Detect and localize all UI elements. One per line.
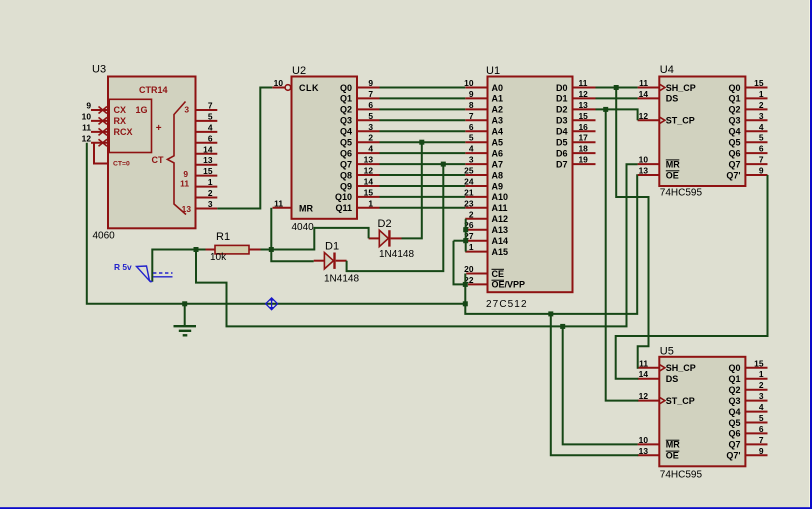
U5 left pin stubs: [638, 368, 660, 456]
wire MR rail down to U5 MR: [563, 326, 638, 444]
svg-text:9: 9: [759, 446, 764, 456]
svg-text:15: 15: [579, 111, 589, 121]
wire R1 node down to D1 anode: [271, 250, 313, 262]
svg-text:12: 12: [579, 89, 589, 99]
svg-text:6: 6: [759, 144, 764, 154]
svg-text:4: 4: [759, 122, 764, 132]
svg-text:Q0: Q0: [728, 363, 740, 373]
svg-text:D0: D0: [556, 83, 568, 93]
U3 CT output bracket: [167, 102, 186, 215]
svg-text:Q7': Q7': [726, 451, 740, 461]
U3 pin12 to CT=0 feedback loop: [94, 143, 108, 164]
svg-text:OE/VPP: OE/VPP: [492, 280, 526, 290]
svg-text:13: 13: [639, 446, 649, 456]
svg-text:3: 3: [184, 105, 189, 115]
svg-text:74HC595: 74HC595: [660, 187, 703, 198]
svg-text:3: 3: [208, 199, 213, 209]
svg-text:RCX: RCX: [114, 127, 133, 137]
svg-text:15: 15: [754, 358, 764, 368]
svg-text:7: 7: [208, 101, 213, 111]
svg-text:1: 1: [368, 198, 373, 208]
svg-text:19: 19: [579, 155, 589, 165]
svg-text:2: 2: [368, 133, 373, 143]
U4 output pin stubs: [745, 88, 767, 176]
svg-text:A14: A14: [492, 236, 509, 246]
svg-text:2: 2: [759, 380, 764, 390]
svg-text:Q6: Q6: [728, 429, 740, 439]
junction D0 clock branch: [614, 85, 619, 90]
svg-text:13: 13: [579, 100, 589, 110]
svg-text:4: 4: [368, 144, 373, 154]
U2 MR pin stub: [273, 207, 292, 209]
svg-text:D7: D7: [556, 159, 568, 169]
svg-text:9: 9: [86, 101, 91, 111]
svg-text:Q4: Q4: [728, 407, 740, 417]
U4 left pin stubs: [638, 88, 660, 176]
svg-text:7: 7: [759, 155, 764, 165]
origin move marker on ground rail: [266, 297, 278, 310]
svg-text:+: +: [156, 123, 162, 134]
U4 output pin numbers: [754, 78, 764, 176]
wire CE OE A12-A15 ground chain: [454, 175, 638, 314]
wire Q5 to D2 cathode: [402, 142, 422, 238]
svg-text:D4: D4: [556, 127, 568, 137]
svg-text:Q5: Q5: [728, 418, 740, 428]
svg-text:Q7: Q7: [728, 159, 740, 169]
svg-text:15: 15: [203, 166, 213, 176]
svg-text:5: 5: [759, 413, 764, 423]
wire U3 pin3 to U2 CLK: [217, 88, 272, 209]
svg-text:7: 7: [469, 111, 474, 121]
svg-text:SH_CP: SH_CP: [666, 83, 696, 93]
svg-text:1: 1: [469, 242, 474, 252]
svg-text:D5: D5: [556, 138, 568, 148]
svg-text:3: 3: [759, 111, 764, 121]
svg-text:11: 11: [579, 78, 588, 88]
IC U5 74HC595 body: [659, 357, 745, 467]
svg-text:A8: A8: [492, 170, 504, 180]
svg-text:A0: A0: [492, 83, 504, 93]
svg-text:15: 15: [364, 187, 374, 197]
svg-text:9: 9: [469, 89, 474, 99]
IC U1 27C512 body: [488, 77, 573, 293]
svg-text:13: 13: [182, 204, 192, 214]
svg-text:CX: CX: [114, 105, 127, 115]
svg-text:Q5: Q5: [728, 138, 740, 148]
U5 pin names: [666, 363, 741, 461]
svg-text:11: 11: [639, 78, 648, 88]
svg-text:14: 14: [639, 369, 649, 379]
svg-text:13: 13: [639, 166, 649, 176]
svg-text:3: 3: [469, 155, 474, 165]
wire Q7 to D1 cathode bypass: [347, 164, 444, 271]
U1 left pin stubs: [465, 88, 487, 285]
svg-text:A9: A9: [492, 181, 504, 191]
svg-text:4: 4: [208, 122, 213, 132]
svg-text:12: 12: [639, 391, 649, 401]
ground symbol: [174, 304, 197, 336]
svg-text:6: 6: [368, 100, 373, 110]
svg-text:3: 3: [759, 391, 764, 401]
svg-text:10: 10: [639, 155, 649, 165]
svg-text:D1: D1: [556, 94, 568, 104]
svg-text:10k: 10k: [210, 252, 227, 263]
svg-text:11: 11: [180, 179, 189, 189]
U5 output pin stubs: [745, 368, 767, 456]
junction OE rail to U5: [548, 311, 553, 316]
wire 5V node down to MR rail: [196, 164, 638, 326]
svg-text:6: 6: [759, 424, 764, 434]
svg-text:Q1: Q1: [340, 94, 352, 104]
U3 internal weight numbers 3 9 11 13: [180, 105, 191, 215]
U2 output pin stubs: [357, 88, 380, 208]
U4 pin names: [666, 83, 741, 181]
svg-text:D3: D3: [556, 116, 568, 126]
resistor R1 body: [206, 245, 261, 254]
svg-text:1: 1: [759, 369, 764, 379]
svg-text:Q2: Q2: [340, 105, 352, 115]
svg-text:CLK: CLK: [299, 83, 319, 93]
svg-text:RX: RX: [114, 116, 127, 126]
svg-text:2: 2: [759, 100, 764, 110]
svg-text:17: 17: [579, 133, 589, 143]
svg-text:4060: 4060: [93, 231, 116, 242]
junction 5V node: [194, 247, 199, 252]
svg-text:10: 10: [274, 78, 284, 88]
svg-text:Q7': Q7': [726, 170, 740, 180]
svg-text:1G: 1G: [135, 105, 147, 115]
U5 output pin numbers: [754, 358, 764, 456]
U1 OE/VPP pin name with overline: [492, 280, 526, 290]
svg-text:25: 25: [464, 166, 474, 176]
svg-text:8: 8: [469, 100, 474, 110]
svg-text:OE: OE: [666, 451, 679, 461]
junction U2.Q7 branch: [441, 162, 446, 167]
junction A14: [463, 238, 468, 243]
svg-text:D2: D2: [556, 105, 568, 115]
svg-text:Q1: Q1: [728, 374, 740, 384]
svg-text:A11: A11: [492, 203, 508, 213]
svg-text:U1: U1: [486, 65, 500, 77]
U1 data pin names D0-D7: [556, 83, 568, 170]
svg-text:Q9: Q9: [340, 181, 352, 191]
wire 5V generator to R1 left: [152, 250, 205, 282]
U4 clock arrows: [659, 84, 665, 124]
svg-text:D2: D2: [378, 218, 392, 230]
U1 address pin names A0-A15: [492, 83, 509, 257]
U5 left pin numbers: [639, 358, 649, 456]
wire R1 right to D2 anode: [261, 228, 369, 250]
svg-text:13: 13: [203, 155, 213, 165]
junction MR rail to U5: [560, 324, 565, 329]
svg-text:A1: A1: [492, 94, 504, 104]
junction R1 output node: [269, 247, 274, 252]
wire D0 branch down to U5 SH_CP: [616, 88, 648, 368]
window border right: [809, 0, 810, 509]
svg-text:A2: A2: [492, 105, 504, 115]
svg-text:12: 12: [364, 166, 374, 176]
IC U4 74HC595 body: [659, 77, 745, 187]
svg-text:D6: D6: [556, 148, 568, 158]
svg-text:Q8: Q8: [340, 170, 352, 180]
svg-text:Q7: Q7: [340, 159, 352, 169]
wire U1 D0 to U4 SH_CP: [596, 87, 638, 89]
svg-text:Q2: Q2: [728, 105, 740, 115]
svg-text:1: 1: [759, 89, 764, 99]
svg-text:11: 11: [82, 122, 91, 132]
U1 CE pin name with overline: [492, 269, 505, 279]
diode D1 1N4148 symbol: [314, 253, 347, 269]
svg-text:15: 15: [754, 78, 764, 88]
DC generator R 5v probe symbol: [137, 266, 173, 282]
wire U4 Q7 prime cascade to U5 DS: [616, 175, 768, 379]
svg-text:7: 7: [759, 435, 764, 445]
svg-text:D1: D1: [325, 240, 339, 252]
svg-text:10: 10: [82, 111, 92, 121]
svg-text:6: 6: [469, 122, 474, 132]
U3 left pin numbers: [82, 101, 92, 144]
svg-text:13: 13: [364, 155, 374, 165]
svg-text:U4: U4: [660, 64, 674, 76]
svg-text:Q4: Q4: [728, 127, 740, 137]
svg-text:4040: 4040: [292, 222, 315, 233]
U1 right pin stubs D0-D7: [573, 88, 596, 165]
U3 right pin numbers: [203, 101, 213, 210]
svg-text:27C512: 27C512: [486, 299, 528, 310]
svg-text:7: 7: [368, 89, 373, 99]
svg-text:4: 4: [759, 402, 764, 412]
svg-text:Q7: Q7: [728, 440, 740, 450]
svg-text:Q2: Q2: [728, 385, 740, 395]
wire U1 D1 to U4 DS: [596, 97, 638, 99]
svg-text:A5: A5: [492, 138, 504, 148]
U3 symbol texts CTR14 / CX RX RCX 1G + CT CT=0: [113, 85, 168, 168]
svg-text:A12: A12: [492, 214, 509, 224]
junction A13: [463, 227, 468, 232]
svg-text:11: 11: [274, 198, 283, 208]
svg-text:14: 14: [364, 177, 374, 187]
svg-text:Q10: Q10: [335, 192, 352, 202]
svg-text:Q1: Q1: [728, 94, 740, 104]
svg-text:ST_CP: ST_CP: [666, 396, 695, 406]
svg-text:4: 4: [469, 144, 474, 154]
svg-text:U2: U2: [292, 65, 306, 77]
svg-text:20: 20: [464, 264, 474, 274]
svg-text:U5: U5: [660, 346, 674, 358]
junction ground rail joins CE chain: [463, 301, 468, 306]
U3 right pins: [196, 110, 218, 209]
svg-text:9: 9: [368, 78, 373, 88]
svg-text:6: 6: [208, 133, 213, 143]
svg-text:24: 24: [464, 177, 474, 187]
svg-text:R 5v: R 5v: [114, 262, 132, 272]
svg-text:DS: DS: [666, 94, 679, 104]
svg-text:Q3: Q3: [728, 396, 740, 406]
svg-text:9: 9: [759, 166, 764, 176]
svg-text:MR: MR: [299, 203, 313, 213]
svg-text:Q4: Q4: [340, 127, 352, 137]
svg-text:1N4148: 1N4148: [379, 249, 414, 260]
svg-text:Q0: Q0: [728, 83, 740, 93]
U3 left pins 9 10 11 12 with X marks: [91, 107, 108, 147]
svg-text:1N4148: 1N4148: [324, 273, 359, 284]
svg-text:R1: R1: [216, 231, 230, 243]
U2 CLK pin stub and bubble: [272, 85, 290, 91]
wire D2 branch down to U5 ST_CP: [606, 109, 639, 400]
U4 left pin numbers: [639, 78, 649, 176]
wires U2 Q0-Q11 to U1 A0-A11: [380, 88, 466, 208]
svg-text:A4: A4: [492, 127, 504, 137]
svg-text:21: 21: [464, 187, 474, 197]
window border bottom: [0, 507, 812, 509]
wire U1 D2 to U4 ST_CP: [596, 109, 638, 120]
svg-text:3: 3: [368, 122, 373, 132]
junction U2.Q5 branch: [419, 140, 424, 145]
svg-text:14: 14: [639, 89, 649, 99]
svg-text:MR: MR: [666, 159, 680, 169]
diode D2 1N4148 symbol: [369, 230, 402, 246]
junction ground tap: [182, 301, 187, 306]
svg-text:DS: DS: [666, 374, 679, 384]
svg-text:10: 10: [639, 435, 649, 445]
svg-text:23: 23: [464, 198, 474, 208]
wire OE rail down to U5 OE: [551, 314, 639, 455]
svg-text:5: 5: [759, 133, 764, 143]
svg-text:Q0: Q0: [340, 83, 352, 93]
svg-text:2: 2: [208, 188, 213, 198]
U1 left pin numbers: [464, 78, 474, 285]
svg-text:16: 16: [579, 122, 589, 132]
svg-text:11: 11: [639, 358, 648, 368]
svg-text:A7: A7: [492, 159, 504, 169]
U2 output pin numbers: [364, 78, 374, 208]
svg-text:A10: A10: [492, 192, 509, 202]
svg-text:Q5: Q5: [340, 138, 352, 148]
svg-text:2: 2: [469, 209, 474, 219]
svg-text:5: 5: [368, 111, 373, 121]
junction OE row: [463, 282, 468, 287]
svg-text:Q3: Q3: [340, 116, 352, 126]
svg-text:CE: CE: [492, 269, 505, 279]
svg-text:A15: A15: [492, 247, 509, 257]
svg-text:CTR14: CTR14: [139, 85, 168, 95]
svg-text:18: 18: [579, 144, 589, 154]
svg-text:12: 12: [82, 133, 92, 143]
svg-text:Q6: Q6: [340, 148, 352, 158]
U2 pin names: [299, 83, 352, 214]
svg-text:ST_CP: ST_CP: [666, 116, 695, 126]
svg-text:14: 14: [203, 144, 213, 154]
svg-text:Q3: Q3: [728, 116, 740, 126]
svg-text:A13: A13: [492, 225, 509, 235]
svg-text:SH_CP: SH_CP: [666, 363, 696, 373]
U5 clock arrows: [659, 364, 665, 404]
U1 right pin numbers: [579, 78, 589, 165]
svg-text:5: 5: [469, 133, 474, 143]
svg-text:10: 10: [464, 78, 474, 88]
svg-text:CT: CT: [152, 155, 164, 165]
IC U3 4060 (CTR14) body: [108, 77, 196, 229]
svg-text:MR: MR: [666, 440, 680, 450]
svg-text:A3: A3: [492, 116, 504, 126]
wire U3 pin12 to ground rail: [87, 143, 466, 304]
svg-text:12: 12: [639, 111, 649, 121]
svg-text:Q6: Q6: [728, 148, 740, 158]
svg-text:74HC595: 74HC595: [660, 469, 703, 480]
junction D2 latch branch: [603, 107, 608, 112]
svg-text:Q11: Q11: [335, 203, 352, 213]
wire U2 MR down to R1 node: [270, 208, 272, 250]
svg-text:5: 5: [208, 111, 213, 121]
svg-text:1: 1: [208, 177, 213, 187]
svg-text:A6: A6: [492, 148, 504, 158]
svg-text:OE: OE: [666, 170, 679, 180]
IC U2 4040 body: [292, 77, 358, 219]
svg-text:CT=0: CT=0: [113, 161, 130, 168]
svg-text:U3: U3: [92, 64, 106, 76]
